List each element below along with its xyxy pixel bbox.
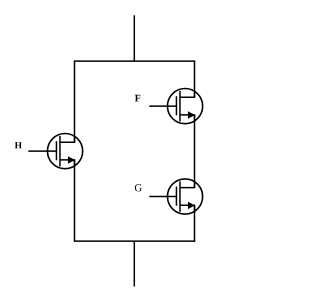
source connection of G [180, 205, 195, 210]
gate bar of F [175, 96, 177, 115]
drain connection of H [60, 138, 75, 142]
wire: top supply lead [133, 15, 135, 61]
gate bar of G [175, 187, 177, 206]
body circle of G [167, 179, 202, 214]
source arrow of F [188, 111, 195, 118]
channel bar of G [179, 181, 181, 212]
wire: left edge lower segment (source of H) [74, 160, 76, 241]
label F [135, 95, 140, 102]
wire: right edge lower segment (source of G) [194, 205, 196, 241]
gate bar of H [55, 141, 57, 160]
transistor G (MOSFET on right edge, lower) [149, 179, 202, 214]
transistor H (MOSFET on left edge) [28, 134, 82, 169]
source connection of F [180, 115, 195, 120]
body circle of H [47, 134, 82, 169]
gate lead of G [149, 196, 176, 198]
source arrow of G [188, 202, 195, 209]
source connection of H [60, 160, 75, 165]
transistor F (MOSFET on right edge, upper) [149, 89, 202, 124]
label G [135, 184, 142, 191]
drain connection of G [180, 184, 195, 188]
channel bar of H [59, 136, 61, 167]
wire: bottom supply lead [133, 241, 135, 286]
source arrow of H [68, 156, 75, 163]
wire: right edge middle segment (source of F / drain of G) [194, 115, 196, 188]
wire: box top edge [74, 60, 196, 62]
body circle of F [167, 89, 202, 124]
wire: right edge upper segment (drain of F) [194, 61, 196, 97]
drain connection of F [180, 93, 195, 97]
label H [15, 142, 22, 148]
gate lead of H [28, 150, 56, 152]
wire: box bottom edge [74, 240, 196, 242]
channel bar of F [179, 91, 181, 122]
gate lead of F [149, 105, 176, 107]
wire: left edge upper segment (drain of H) [74, 61, 76, 142]
